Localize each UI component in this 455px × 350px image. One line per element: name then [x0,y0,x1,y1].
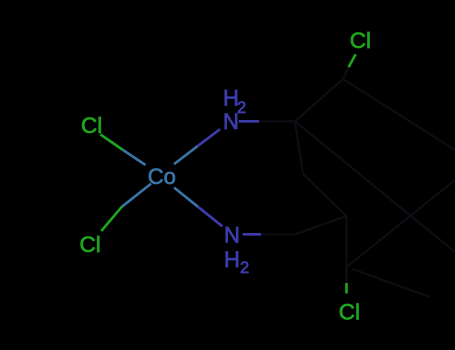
svg-text:Cl: Cl [339,299,360,324]
svg-text:N: N [223,109,239,134]
svg-text:2: 2 [240,259,249,277]
svg-text:Cl: Cl [81,113,102,138]
svg-text:Cl: Cl [350,28,371,53]
svg-text:Co: Co [148,164,176,189]
svg-text:N: N [224,222,240,247]
svg-text:H: H [224,247,240,272]
svg-text:Cl: Cl [80,232,101,257]
